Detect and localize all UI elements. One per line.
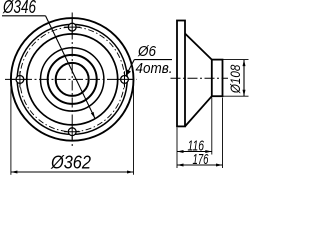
svg-text:4отв.: 4отв. [136, 60, 173, 77]
dimension 116 [177, 98, 212, 169]
svg-text:Ø108: Ø108 [227, 64, 243, 94]
side view hub [212, 60, 223, 97]
dimension Ø346 leader [2, 0, 95, 119]
circle R31.5 [40, 48, 103, 111]
side view bottom slant [185, 96, 212, 126]
side view center line [171, 77, 229, 79]
outer circle Ø362 [11, 18, 134, 141]
dimension Ø108 [223, 60, 249, 97]
dimension Ø6 4otv leader [126, 43, 173, 77]
circle R45 [27, 34, 118, 125]
bore circle [56, 63, 89, 96]
dimension 176 [177, 98, 223, 169]
horizontal center line (front view) [5, 78, 137, 80]
side view top slant [185, 34, 212, 60]
bolt hole top [64, 19, 80, 35]
svg-text:176: 176 [193, 151, 209, 168]
bolt hole right [116, 71, 132, 87]
hub boss circle [48, 55, 97, 104]
bolt hole bottom [64, 124, 80, 140]
rim circle Ø346 [17, 24, 127, 134]
bolt circle (dash-dot) [20, 27, 125, 132]
svg-text:Ø6: Ø6 [137, 43, 156, 60]
svg-text:Ø346: Ø346 [2, 0, 36, 17]
svg-text:Ø362: Ø362 [50, 152, 92, 173]
bolt hole left [12, 71, 28, 87]
side view plate [177, 21, 185, 127]
vertical center line (front view) [71, 13, 73, 148]
dimension Ø362 [11, 81, 134, 175]
